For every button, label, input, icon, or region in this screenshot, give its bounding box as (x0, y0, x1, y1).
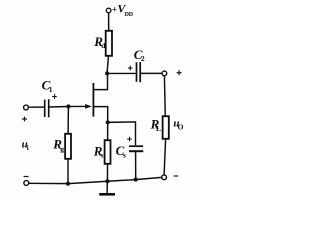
wire source node to Rs (107, 122, 109, 140)
label +VDD (112, 2, 134, 18)
wire output terminal to RL (163, 76, 166, 117)
wire C1 to gate node (50, 106, 69, 109)
ground (99, 182, 115, 195)
node drain junction (105, 71, 109, 75)
node Rg bottom junction (66, 182, 70, 186)
wire VDD to Rd (108, 13, 110, 31)
wire Rd to drain node (107, 56, 108, 73)
label Rd (93, 34, 106, 50)
svg-text:s: s (101, 151, 104, 160)
transistor gate arrow (85, 104, 92, 109)
terminal input plus (24, 105, 29, 110)
plus sign at C1 (52, 94, 57, 99)
resistor Rd (106, 31, 112, 56)
transistor Q1 channel bar (92, 83, 94, 117)
label C1 (42, 78, 53, 95)
svg-text:g: g (60, 145, 64, 154)
node Rs bottom junction (105, 179, 109, 183)
svg-text:DD: DD (125, 12, 134, 18)
wire Rs to bottom rail (106, 164, 108, 181)
capacitor C1 (45, 99, 49, 117)
capacitor C2 (137, 62, 141, 82)
wire RL to bottom-right terminal (164, 139, 166, 175)
wire Cs to bottom rail (135, 152, 137, 180)
label uO (173, 118, 183, 132)
terminal output plus (162, 71, 167, 76)
wire gate node to Rg (67, 107, 69, 135)
plus sign at Cs (127, 137, 132, 142)
resistor RL (163, 116, 169, 139)
plus sign output (177, 70, 182, 75)
label ui (22, 138, 29, 152)
resistor Rs (105, 140, 111, 164)
transistor drain tap (94, 75, 108, 90)
label Cs (116, 143, 126, 160)
label RL (150, 117, 161, 133)
wire C2 to output terminal (141, 72, 162, 74)
wire Rg to bottom rail (67, 159, 69, 184)
wire gate node to arrow (68, 105, 86, 107)
transistor source tap (94, 107, 108, 122)
label C2 (134, 47, 145, 63)
terminal input minus (24, 181, 29, 186)
svg-text:1: 1 (49, 85, 53, 94)
wire bottom rail (29, 177, 162, 183)
label Rg (52, 137, 64, 154)
wire drain node to C2 (107, 72, 136, 74)
label Rs (93, 143, 104, 159)
resistor Rg (65, 134, 71, 159)
node gate junction (66, 104, 70, 108)
terminal +VDD (106, 8, 111, 13)
svg-text:s: s (123, 151, 126, 160)
node source junction (106, 120, 110, 124)
plus sign at C2 (128, 66, 133, 71)
minus sign input (24, 176, 29, 177)
svg-text:L: L (156, 124, 161, 133)
capacitor Cs (129, 146, 143, 151)
svg-text:i: i (27, 144, 29, 152)
wire input to C1 (28, 106, 44, 108)
svg-text:2: 2 (141, 54, 145, 63)
terminal output minus (162, 175, 167, 180)
wire source node to Cs (108, 122, 136, 145)
minus sign output (174, 175, 178, 176)
node Cs bottom junction (134, 178, 138, 182)
svg-text:O: O (178, 123, 184, 132)
plus sign input (22, 117, 27, 122)
